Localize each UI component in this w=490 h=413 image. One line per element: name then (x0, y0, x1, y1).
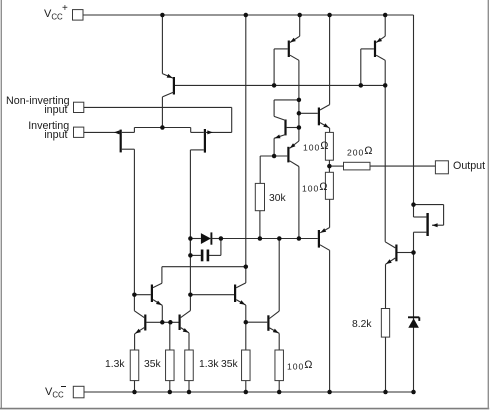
capacitor C1 left wire (190, 254, 201, 256)
Q12 emitter wire to 1.3k (188, 333, 190, 350)
label Vcc- (45, 387, 64, 400)
wire down to Vcc- rail (413, 232, 415, 392)
wire tap to 200ohm (329, 165, 343, 167)
Q11 emitter wire to 1.3k (134, 334, 136, 350)
Q5 collector diagonal (376, 55, 385, 60)
Q16 emitter diagonal (386, 258, 396, 264)
Q10 emitter wire (161, 305, 163, 322)
Q3 input wire (205, 131, 232, 133)
wire Vcc- bottom rail (84, 391, 414, 393)
label 30k (269, 194, 286, 205)
Q7 collector diagonal (290, 161, 299, 167)
wire 8.2k bottom to rail (385, 337, 387, 392)
label 100ohm upper (303, 141, 328, 152)
label Inverting input (0, 121, 69, 132)
resistor 35k right (242, 350, 251, 381)
Q7 base wire / 30k top wire (260, 155, 287, 157)
zener DZ cathode bar (408, 316, 419, 318)
node rail 1.3k2 (187, 390, 192, 395)
label 100ohm lower (302, 182, 327, 193)
wire 30k bottom (259, 211, 261, 239)
Q13 collector wire (245, 267, 247, 283)
Q11 emitter arrow (135, 329, 141, 334)
Q16 base wire (398, 252, 414, 254)
Q13 base wire (190, 294, 234, 296)
transistor Q14 base bar (267, 315, 269, 331)
transistor Q10 base bar (151, 285, 153, 303)
transistor Q2 (inverting input) bar (120, 130, 122, 153)
Q6 emitter wire down (273, 138, 275, 156)
label 35k right (221, 360, 238, 371)
node bus/Q5 base (359, 83, 364, 88)
Q8 emitter arrow (323, 123, 329, 128)
Q6 collector wire (274, 99, 299, 101)
Q11 collector diagonal (134, 311, 144, 318)
wire 30k top (259, 156, 261, 183)
node input pair tail (160, 125, 165, 130)
diode D1 cathode wire (211, 238, 221, 240)
Q9 emitter arrow (PNP) (320, 228, 326, 233)
node Q7 coll (297, 236, 302, 241)
node C1 left (188, 253, 193, 258)
Q6 base wire (287, 127, 299, 129)
Q16 emitter arrow (386, 259, 392, 264)
Q4 emitter diagonal (290, 36, 300, 42)
Q2 input arrow (114, 130, 120, 134)
label 35k left (144, 360, 161, 371)
Q4 collector wire down (298, 60, 300, 141)
wire non-inverting input (84, 106, 232, 108)
terminal Output (435, 161, 448, 174)
node rail 35k (168, 390, 173, 395)
node Q14 base (244, 320, 249, 325)
node rail/Q4 (297, 13, 302, 18)
node rail 8.2k (383, 390, 388, 395)
terminal Inverting input (74, 127, 84, 137)
wire cap to diode cathode (220, 239, 222, 256)
Q14 collector wire (278, 239, 280, 312)
wire base bus of current-mirror PNPs (175, 84, 385, 86)
resistor 35k left (166, 350, 175, 381)
Q1 emitter wire from rail (161, 15, 163, 74)
Q3 collector stub (190, 149, 203, 151)
wire 35k left to rail (169, 381, 171, 392)
transistor Q8 base bar (318, 108, 320, 126)
transistor Q5 base bar (374, 41, 376, 58)
Q9 emitter wire from 100ohm (329, 199, 331, 227)
Q13 collector diagonal (236, 283, 246, 288)
zener diode DZ (408, 318, 419, 327)
label Non-inverting input (0, 96, 70, 107)
transistor Q3 (non-inverting input) bar (204, 129, 206, 153)
Q16 collector diagonal (385, 242, 395, 248)
Q14 emitter wire to 100ohm (278, 333, 280, 350)
node bus/Q4 base (272, 83, 277, 88)
transistor Q15 base bar (426, 213, 428, 236)
Q5 emitter arrow (PNP) (376, 38, 382, 43)
Q12 collector diagonal (181, 311, 191, 318)
transistor Q1 base bar (173, 77, 175, 95)
Q4 base wire (274, 48, 288, 50)
node Q14 coll (277, 236, 282, 241)
wire right branch from top rail down (413, 15, 415, 205)
node Q10 emitter (160, 320, 165, 325)
wire non-inverting input drop (231, 107, 233, 132)
Q6 emitter diagonal (274, 135, 285, 139)
transistor Q9 base bar (318, 230, 320, 248)
diode D1 anode wire (190, 238, 201, 240)
Q12 emitter arrow (183, 328, 189, 333)
wire 1.3k left to rail (134, 381, 136, 392)
Q15 emitter loop (414, 204, 444, 206)
Q3 input arrow (207, 130, 213, 134)
Q13 emitter diagonal (236, 300, 246, 306)
label 200ohm (347, 146, 372, 157)
wire Q10 collector bus (162, 266, 246, 268)
node Q12 coll (188, 292, 193, 297)
wire 100ohm emitter to rail (278, 381, 280, 392)
node 30k bottom (258, 236, 263, 241)
Q3 emitter wire from tail (162, 127, 190, 129)
Q14 emitter diagonal (270, 328, 280, 334)
node D1 anode (188, 236, 193, 241)
page border frame (0, 0, 2, 409)
node Q15 collector (411, 202, 416, 207)
node Q16 base (411, 250, 416, 255)
Q3 collector drop wire (189, 150, 191, 295)
node rail/Q5 (383, 13, 388, 18)
Q11 base wire row (146, 321, 178, 323)
Q11 emitter diagonal (135, 328, 145, 334)
Q11 collector wire (133, 295, 135, 311)
node rail Q9 (327, 390, 332, 395)
node 35k top (168, 320, 173, 325)
node rail/mirror (244, 13, 249, 18)
Q2 collector stub (122, 148, 135, 150)
node rail 35k2 (244, 390, 249, 395)
Q5 base wire (361, 48, 374, 50)
label 100ohm emitter (287, 360, 312, 371)
wire 35k left top (169, 322, 171, 350)
wire between 100ohm resistors (328, 160, 330, 172)
capacitor C1 right plate (207, 250, 210, 262)
transistor Q4 base bar (288, 41, 290, 58)
Q4 emitter from rail (299, 15, 301, 36)
Q15 collector wire (413, 205, 415, 217)
Q7 emitter arrow (PNP) (290, 143, 296, 148)
Q12 emitter diagonal (181, 328, 189, 333)
Q10 base wire (134, 294, 150, 296)
node Q8 base (297, 111, 302, 116)
transistor Q7 base bar (287, 147, 289, 163)
wire Vcc+ top rail (83, 14, 414, 16)
Q6 emitter arrow (275, 135, 281, 139)
terminal Non-inverting input (74, 102, 84, 112)
Q10 collector diagonal (153, 283, 162, 287)
Q2 collector drop wire (133, 149, 135, 295)
node mirror coll (244, 264, 249, 269)
Q15 emitter arrow (432, 223, 438, 227)
resistor 100ohm emitter (275, 350, 284, 381)
node rail/Q1 (160, 13, 165, 18)
Q14 base wire (246, 321, 267, 323)
Q8 collector diagonal (320, 105, 330, 110)
transistor Q16 base bar (395, 245, 397, 262)
Q1 emitter arrow (PNP) (167, 74, 173, 78)
Q7 emitter diagonal (290, 141, 299, 148)
Q4 collector diagonal (290, 55, 299, 60)
resistor 30k (255, 183, 264, 210)
transistor Q13 base bar (234, 285, 236, 303)
Q14 emitter arrow (273, 329, 279, 334)
Q5 emitter diagonal (376, 36, 385, 42)
Q8 emitter wire to 100ohm (329, 128, 331, 132)
Q1 collector wire to input pair (161, 97, 163, 128)
capacitor C1 left plate (201, 250, 204, 262)
resistor 1.3k left (130, 350, 139, 381)
Q7 collector wire down (298, 167, 300, 239)
node Q10 base (132, 292, 137, 297)
label 8.2k (352, 320, 371, 331)
capacitor C1 right wire (209, 254, 221, 256)
wire 1.3k right to rail (188, 381, 190, 392)
wire to Output (370, 165, 435, 167)
node rail 1.3k (132, 390, 137, 395)
Q8 base wire (299, 112, 318, 114)
zener DZ cathode tick (418, 317, 420, 321)
transistor Q12 base bar (179, 315, 181, 331)
Q16 emitter wire to 8.2k (385, 264, 387, 308)
node D1 cathode (219, 236, 224, 241)
label Output (453, 161, 485, 172)
resistor 100ohm lower (325, 172, 333, 199)
resistor 8.2k (381, 309, 389, 338)
Q8 emitter diagonal (320, 123, 330, 129)
wire inverting input (84, 131, 120, 133)
wire top rail to mirror collector (245, 15, 247, 267)
Q13 emitter wire to 35k (245, 305, 247, 350)
Q4 emitter arrow (PNP) (290, 38, 296, 43)
node bus/Q5 coll (383, 83, 388, 88)
label 1.3k right (199, 360, 218, 371)
node Q7 base/30k (272, 154, 277, 159)
Q14 collector diagonal (270, 311, 280, 318)
node rail/Q8 (327, 13, 332, 18)
wire diode anode to cap (189, 239, 191, 256)
Q15 third lead wire (414, 231, 427, 233)
Q13 emitter arrow (239, 300, 245, 305)
Q12 collector wire (189, 295, 191, 311)
wire 35k right to rail (245, 381, 247, 392)
Q2 emitter wire from tail (134, 127, 162, 129)
node Q6 base (297, 125, 302, 130)
Q9 emitter diagonal (320, 228, 329, 233)
Q5 collector long wire down (384, 60, 386, 242)
Q6 collector diagonal (274, 116, 285, 120)
resistor 1.3k right (185, 350, 194, 381)
wire bus to Q9 base (221, 238, 318, 240)
transistor Q11 base bar (144, 315, 146, 331)
diode D1 cathode bar (210, 232, 212, 244)
transistor Q6 base bar (284, 120, 286, 136)
label Vcc+ (44, 9, 63, 22)
resistor 200ohm (344, 162, 371, 170)
diode D1 (201, 233, 211, 244)
Q10 emitter arrow (156, 301, 162, 306)
Q1 collector diagonal (162, 92, 174, 97)
node rail zener (411, 390, 416, 395)
Q9 collector wire to rail (329, 250, 331, 392)
label 1.3k left (105, 360, 124, 371)
terminal Vcc- (73, 386, 84, 398)
terminal Vcc+ (73, 10, 84, 21)
node 100ohm tap (327, 164, 332, 169)
node rail 100ohm (277, 390, 282, 395)
Q9 collector diagonal (320, 245, 330, 251)
Q10 emitter diagonal (153, 300, 162, 306)
node Q6 coll (297, 98, 302, 103)
Q1 emitter diagonal (162, 74, 173, 79)
Q8 collector wire to rail (329, 15, 331, 105)
Q5 emitter from rail (384, 15, 386, 36)
resistor 100ohm upper (325, 132, 333, 160)
